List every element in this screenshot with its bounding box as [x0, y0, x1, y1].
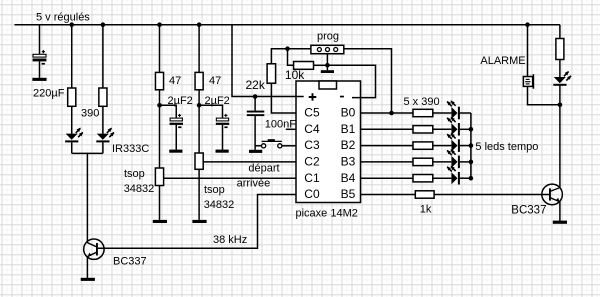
svg-text:tsop: tsop [124, 168, 145, 180]
svg-text:C1: C1 [304, 171, 320, 185]
svg-text:C4: C4 [304, 122, 320, 136]
capacitor C1 220µF [33, 50, 47, 65]
junction bus B2 [469, 143, 474, 148]
label picaxe 14M2 [296, 208, 358, 220]
label tsop second [204, 184, 225, 196]
resistor RB1 390 [413, 126, 433, 133]
resistor R47-1 47 [155, 72, 163, 89]
svg-text:47: 47 [169, 75, 181, 87]
resistor R10k 10k [294, 62, 314, 70]
svg-text:47: 47 [209, 75, 221, 87]
wire B3 to resistor [361, 161, 414, 163]
wire joining LED cathodes [72, 152, 103, 154]
resistor R390-1 390 [68, 88, 76, 106]
IR LED D1 IR333C [65, 128, 83, 143]
ground below tsop1 [153, 220, 167, 223]
svg-text:390: 390 [81, 108, 99, 120]
label 390 [81, 108, 99, 120]
svg-text:arrivée: arrivée [237, 177, 271, 189]
IC U1 picaxe 14M2 [296, 81, 361, 203]
wire 5V power rail [15, 24, 560, 26]
label 38 kHz [213, 234, 247, 246]
label 2µF2 first [168, 95, 193, 107]
label 5 leds tempo [475, 141, 538, 153]
wire node to Q2 collector [559, 105, 561, 188]
junction minus net [325, 63, 330, 68]
svg-text:B1: B1 [341, 122, 356, 136]
wire LED L4 to bus [460, 177, 471, 179]
pin label B0 [341, 106, 356, 120]
wire B1 to resistor [361, 128, 414, 130]
pin label B3 [341, 155, 356, 169]
ground below Q2 [553, 221, 567, 224]
transistor Q1 BC337 [84, 239, 104, 259]
junction rail/buzzer [525, 22, 530, 27]
pin label C5 [304, 106, 320, 120]
resistor RB4 390 [413, 175, 433, 182]
svg-text:BC337: BC337 [113, 255, 147, 267]
wire 10k right [314, 64, 328, 66]
resistor R390-2 390 [99, 88, 107, 106]
wire R390-1 to LED D1 [71, 106, 73, 134]
junction rail/R390-2 [101, 22, 106, 27]
junction B0/prog [389, 111, 394, 116]
wire LED L3 to bus [460, 161, 471, 163]
svg-text:B4: B4 [341, 171, 356, 185]
svg-text:C2: C2 [304, 155, 320, 169]
resistor RB3 390 [413, 158, 433, 165]
label prog [317, 31, 339, 43]
wire tsop2 output [203, 161, 296, 163]
svg-text:BC337: BC337 [511, 205, 546, 217]
svg-text:22k: 22k [246, 78, 266, 92]
wire B2 to resistor [361, 145, 414, 147]
svg-text:tsop: tsop [204, 184, 225, 196]
svg-text:départ: départ [248, 162, 279, 174]
svg-text:IR333C: IR333C [112, 143, 149, 155]
wire B0 to resistor [361, 112, 414, 114]
label 220µF [33, 88, 65, 100]
pin label B1 [341, 122, 356, 136]
wire rail to C1 [39, 25, 41, 55]
label BC337 left [113, 255, 147, 267]
svg-text:10k: 10k [285, 68, 305, 82]
pin stub C4 [286, 128, 296, 130]
resistor R22k 22k [267, 64, 276, 83]
LED L4 tempo [447, 166, 460, 185]
capacitor C2uF2-2 2µF2 [216, 114, 229, 128]
label 47 second [209, 75, 221, 87]
label 47 first [169, 75, 181, 87]
svg-text:C5: C5 [304, 106, 320, 120]
label + pin [309, 93, 317, 100]
junction 100nF [253, 94, 258, 99]
junction header/10k [285, 46, 290, 51]
svg-text:B3: B3 [341, 155, 356, 169]
transistor Q2 BC337 [542, 184, 563, 205]
wire R47-1 down [159, 90, 161, 168]
tsop module 2 34832 [195, 153, 203, 169]
wire LED L2 to bus [460, 145, 471, 147]
svg-text:5 leds tempo: 5 leds tempo [475, 141, 538, 153]
ground below Q1 [81, 278, 95, 281]
LED Lalarm [553, 71, 571, 86]
svg-text:B5: B5 [341, 187, 356, 201]
wire LED cathode bus [470, 113, 472, 178]
wire LED L0 to bus [460, 112, 471, 114]
wire to C2uF2-1 [160, 105, 177, 118]
wire B4 to resistor [361, 177, 414, 179]
wire resistor to LED L1 [433, 128, 452, 130]
label 2µF2 second [205, 95, 230, 107]
wire to C2uF2-2 [199, 105, 222, 118]
svg-text:5 x 390: 5 x 390 [404, 96, 440, 108]
pin label C1 [304, 171, 320, 185]
label arrivée [237, 177, 271, 189]
junction rail/R390-1 [69, 22, 74, 27]
svg-text:34832: 34832 [124, 183, 155, 195]
capacitor C3 100nF [247, 111, 264, 117]
pin label C4 [304, 122, 320, 136]
wire LED D2 cathode down [102, 142, 104, 153]
wire rail to R47-1 [159, 25, 161, 73]
wire C1 to ground [39, 61, 41, 78]
LED L2 tempo [447, 133, 460, 152]
wire LED join to Q1 collector [86, 153, 88, 243]
resistor RB2 390 [413, 142, 433, 149]
wire 22k to C5 [271, 83, 296, 113]
wire rail to IC + pin [232, 25, 304, 97]
wire header mid pin to ground [326, 54, 328, 71]
IR LED D2 IR333C [96, 128, 114, 143]
svg-text:38 kHz: 38 kHz [213, 234, 247, 246]
pin label C2 [304, 155, 320, 169]
capacitor C2uF2-1 2µF2 [170, 114, 183, 128]
wire tsop2 to ground [198, 169, 200, 220]
wire header right pin to B0 [344, 49, 392, 113]
wire LED L1 to bus [460, 128, 471, 130]
wire alarm resistor to LED [559, 59, 561, 77]
wire R390-2 to LED D2 [102, 106, 104, 134]
junction cap branch 2 [197, 103, 202, 108]
wire rail to buzzer [527, 25, 529, 77]
label 34832 first [124, 183, 155, 195]
junction bus B4 [469, 176, 474, 181]
svg-text:C3: C3 [304, 138, 320, 152]
wire rail to R47-2 [198, 25, 200, 73]
prog header J1 [311, 45, 344, 53]
resistor Ralarm [556, 39, 564, 60]
label ALARME [480, 55, 525, 67]
junction cap branch 1 [157, 103, 162, 108]
svg-text:1k: 1k [420, 203, 432, 215]
svg-text:picaxe 14M2: picaxe 14M2 [296, 208, 358, 220]
svg-text:2µF2: 2µF2 [205, 95, 230, 107]
ground below C2uF2-2 [216, 150, 229, 153]
pin label B5 [341, 187, 356, 201]
svg-text:2µF2: 2µF2 [168, 95, 193, 107]
resistor R1k 1k [415, 191, 434, 198]
junction bus B1 [469, 127, 474, 132]
svg-text:prog: prog [317, 31, 339, 43]
wire C2uF2-2 to ground [222, 125, 224, 150]
label départ [248, 162, 279, 174]
wire header-left net [271, 49, 311, 64]
junction alarm node [558, 103, 563, 108]
label tsop first [124, 168, 145, 180]
wire resistor to LED L4 [433, 177, 452, 179]
wire button to C3 [282, 145, 296, 147]
LED L3 tempo [447, 149, 460, 168]
wire Q2 emitter to ground [559, 201, 561, 221]
label 10k [285, 68, 305, 82]
wire 10k left [288, 49, 294, 66]
ground below 100nF [249, 150, 262, 153]
wire Q1 base 38kHz net [98, 195, 296, 249]
pin label C3 [304, 138, 320, 152]
LED L1 tempo [447, 117, 460, 136]
svg-text:B2: B2 [341, 138, 356, 152]
label - pin [340, 96, 344, 98]
pin label B2 [341, 138, 356, 152]
wire resistor to LED L2 [433, 145, 452, 147]
label 34832 second [204, 199, 235, 211]
svg-text:B0: B0 [341, 106, 356, 120]
wire Q1 emitter to ground [86, 256, 88, 278]
wire buzzer to node [528, 87, 560, 105]
svg-text:C0: C0 [304, 187, 320, 201]
wire resistor to LED L3 [433, 161, 452, 163]
ground below C2uF2-1 [169, 150, 182, 153]
wire rail to R390-1 [71, 25, 73, 88]
wire alarm LED to node [559, 86, 561, 105]
ground below tsop2 [192, 220, 206, 223]
label 100nF [265, 119, 296, 131]
svg-text:220µF: 220µF [33, 88, 65, 100]
buzzer BZ1 [523, 74, 534, 89]
wire 1k to Q2 base [434, 194, 550, 196]
resistor R47-2 47 [195, 72, 203, 89]
label BC337 right [511, 205, 546, 217]
svg-text:ALARME: ALARME [480, 55, 525, 67]
label 5 x 390 [404, 96, 440, 108]
wire R47-2 down [198, 90, 200, 153]
svg-text:34832: 34832 [204, 199, 235, 211]
wire minus net to IC [327, 65, 375, 97]
junction rail/R47-2 [197, 22, 202, 27]
junction bus B3 [469, 160, 474, 165]
tsop module 1 34832 [155, 168, 163, 186]
label 1k [420, 203, 432, 215]
wire C2uF2-1 to ground [175, 125, 177, 150]
wire ground net to button [255, 145, 262, 147]
resistor RB0 390 [413, 109, 433, 116]
junction rail/R47-1 [157, 22, 162, 27]
pin label B4 [341, 171, 356, 185]
wire to 100nF [254, 97, 256, 111]
LED L0 tempo [447, 100, 460, 119]
ground below C1 [32, 78, 46, 81]
label 22k [246, 78, 266, 92]
wire LED D1 cathode down [71, 142, 73, 153]
label IR333C [112, 143, 149, 155]
label 5 v régulés [36, 12, 90, 24]
ground below header [321, 70, 334, 73]
pushbutton départ/arrivée [262, 139, 282, 148]
svg-text:5 v régulés: 5 v régulés [36, 12, 90, 24]
wire rail to R390-2 [102, 25, 104, 88]
wire B5 to 1k [361, 194, 416, 196]
wire 100nF to ground [254, 116, 256, 150]
wire tsop1 output [164, 177, 296, 179]
wire resistor to LED L0 [433, 112, 452, 114]
wire tsop1 to ground [159, 186, 161, 220]
pin label C0 [304, 187, 320, 201]
wire rail to alarm resistor [559, 25, 561, 39]
